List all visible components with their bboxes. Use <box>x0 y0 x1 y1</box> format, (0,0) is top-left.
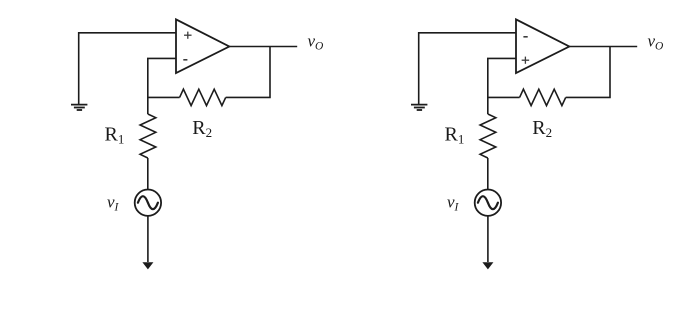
svg-text:vI: vI <box>107 193 120 214</box>
svg-text:R1: R1 <box>105 123 125 146</box>
svg-text:R2: R2 <box>532 117 552 140</box>
svg-text:R1: R1 <box>445 123 465 146</box>
svg-text:R2: R2 <box>192 117 212 140</box>
svg-text:vO: vO <box>648 32 665 53</box>
svg-text:vI: vI <box>447 193 460 214</box>
svg-text:vO: vO <box>308 32 325 53</box>
